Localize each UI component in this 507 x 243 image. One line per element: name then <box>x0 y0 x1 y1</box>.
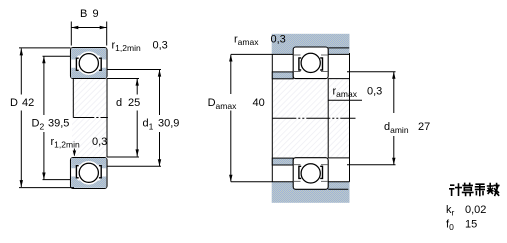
inner ring face line (right view, between halves) <box>327 79 329 158</box>
shaft shoulder face line <box>271 54 273 181</box>
svg-text:9: 9 <box>93 8 99 20</box>
dimension d: dimension line with arrows <box>136 79 138 95</box>
inner ring face line left <box>72 79 74 118</box>
dimension B: dimension line with arrows <box>71 27 106 29</box>
housing bore line right bottom (D level) <box>328 188 348 190</box>
svg-text:0,02: 0,02 <box>465 204 486 216</box>
算 <box>463 183 473 195</box>
inner ring face line right <box>106 79 108 158</box>
leader line for right ramax <box>328 99 362 101</box>
svg-text:B: B <box>80 8 87 20</box>
outer ring (blue, upper) <box>71 48 106 55</box>
ball (lower) <box>79 163 98 182</box>
dimension Da: dimension line with arrows <box>230 55 232 94</box>
svg-text:D: D <box>10 97 18 109</box>
raceway groove (white, lower) <box>77 161 101 185</box>
centerline axis (left view) <box>73 117 108 119</box>
ball (upper) <box>79 54 98 73</box>
dimension d: extension lines <box>107 78 139 80</box>
seal right (right lower) <box>320 166 322 178</box>
leader arrow to lower inner ring corner radius <box>73 149 75 156</box>
系 <box>476 184 485 195</box>
svg-text:d: d <box>116 97 122 109</box>
seal left (lower) <box>76 166 78 178</box>
chinese heading 计算系数 (drawn strokes) <box>450 183 499 195</box>
dimension d1: extension lines <box>107 69 161 71</box>
svg-text:0,3: 0,3 <box>271 34 286 46</box>
dimension da: extension lines <box>347 71 396 73</box>
ball (right lower) <box>301 164 320 183</box>
数 <box>488 184 499 196</box>
bearing lower half (right view, mirrored, unfilled) <box>293 158 328 190</box>
housing block bottom (blue) <box>272 182 350 203</box>
housing shoulder bore line right bottom <box>328 181 349 183</box>
svg-text:15: 15 <box>465 219 477 231</box>
shaft cross-section hatch <box>272 79 349 157</box>
svg-text:30,9: 30,9 <box>158 118 179 130</box>
dimension D: extension lines <box>19 47 71 49</box>
dimension d1: dimension line with arrows <box>159 70 161 115</box>
raceway boundary lines (upper) <box>294 54 301 56</box>
seal right (upper) <box>99 58 101 70</box>
svg-text:27: 27 <box>418 121 430 133</box>
housing shoulder bore line right <box>328 53 349 55</box>
seal left (upper) <box>76 58 78 70</box>
seal left (right upper) <box>299 58 301 70</box>
seal right (lower) <box>99 166 101 178</box>
housing shoulder bore line left (also Da extension / ra leader) <box>231 53 293 55</box>
dimension D: dimension line with arrows <box>20 49 22 95</box>
seal right (right upper) <box>320 58 322 70</box>
housing shoulder bore line left bottom (Da extension) <box>231 181 293 183</box>
bearing upper half (left view) <box>71 48 108 79</box>
dimension D2: dimension line with arrows <box>43 56 45 115</box>
dimension B: extension lines <box>70 22 72 46</box>
bearing lower half (left view, mirrored) <box>71 158 108 189</box>
raceway groove (white) <box>77 51 101 75</box>
dimension da: dimension line with arrows <box>393 72 395 113</box>
svg-text:42: 42 <box>22 97 34 109</box>
housing bore right edge <box>349 53 351 182</box>
bearing upper half (right view, unfilled) <box>293 47 328 79</box>
svg-text:0,3: 0,3 <box>367 86 382 98</box>
shaft surface lines right of bearing <box>328 78 349 80</box>
housing bore line right (D level) <box>328 47 349 49</box>
svg-text:0,3: 0,3 <box>153 40 168 52</box>
ball (right upper) <box>301 53 320 72</box>
centerline axis (right view) <box>272 117 355 119</box>
inner ring (blue, upper) <box>71 71 106 78</box>
计 <box>450 184 461 195</box>
raceway boundary lines (lower) <box>294 180 301 182</box>
housing block top (blue) <box>272 34 350 55</box>
svg-text:25: 25 <box>128 97 140 109</box>
shaft shoulder lower (blue) <box>272 158 293 165</box>
svg-text:39,5: 39,5 <box>48 118 69 130</box>
outer ring (blue, lower) <box>71 181 106 188</box>
svg-text:40: 40 <box>253 97 265 109</box>
bore hatch (shaft seat area between bearing halves) <box>72 79 107 157</box>
inner ring (blue, lower) <box>71 158 106 165</box>
svg-text:0,3: 0,3 <box>92 136 107 148</box>
dimension D2: extension lines <box>43 55 71 57</box>
seal left (right lower) <box>299 166 301 178</box>
shaft shoulder upper (blue) <box>272 72 293 79</box>
